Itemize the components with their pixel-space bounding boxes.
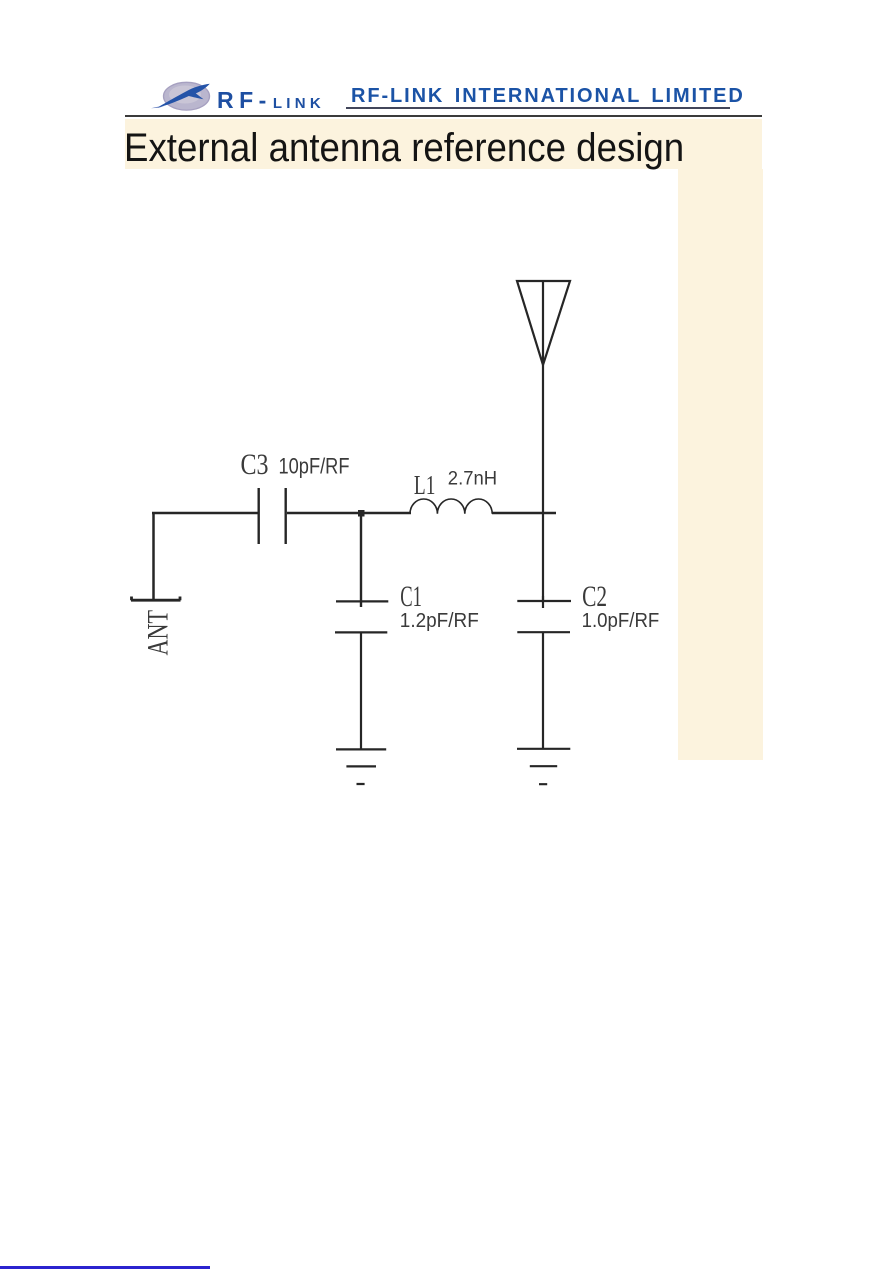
svg-text:C1: C1	[400, 580, 422, 613]
company logo	[140, 66, 350, 118]
capacitor C1 plates	[335, 601, 388, 632]
wire ANT vertical	[152, 513, 155, 600]
header underline	[346, 107, 730, 109]
capacitor C3 plates	[259, 488, 286, 544]
company name header	[351, 85, 745, 108]
right sidebar panel	[678, 169, 763, 760]
terminal ANT bar	[131, 597, 181, 601]
wire antenna vertical	[542, 365, 544, 602]
logo text RF-LINK	[217, 87, 325, 114]
footer blue line	[0, 1266, 210, 1269]
wire right segment	[492, 512, 556, 515]
svg-text:1.2pF/RF: 1.2pF/RF	[400, 610, 479, 632]
wire C2 stub through top plate	[542, 596, 544, 608]
svg-text:2.7nH: 2.7nH	[448, 468, 497, 490]
svg-text:10pF/RF: 10pF/RF	[279, 454, 350, 479]
wire C1 drop	[360, 513, 362, 607]
ground under C1	[336, 749, 386, 784]
ground under C2	[517, 749, 570, 784]
svg-text:ANT: ANT	[141, 610, 174, 656]
wire middle segment	[287, 512, 411, 514]
header rule	[125, 115, 762, 117]
title bar	[125, 119, 762, 170]
node junction dot	[358, 510, 365, 517]
svg-text:L1: L1	[414, 470, 436, 500]
svg-text:C3: C3	[241, 448, 269, 481]
svg-text:C2: C2	[582, 580, 607, 613]
wire C2 to ground	[542, 632, 544, 748]
capacitor C2 plates	[517, 601, 571, 632]
wire C1 to ground	[360, 633, 362, 750]
svg-text:1.0pF/RF: 1.0pF/RF	[582, 610, 660, 632]
page title	[124, 126, 684, 171]
wire left segment	[152, 512, 258, 515]
antenna symbol	[517, 281, 570, 365]
inductor L1	[410, 499, 492, 514]
